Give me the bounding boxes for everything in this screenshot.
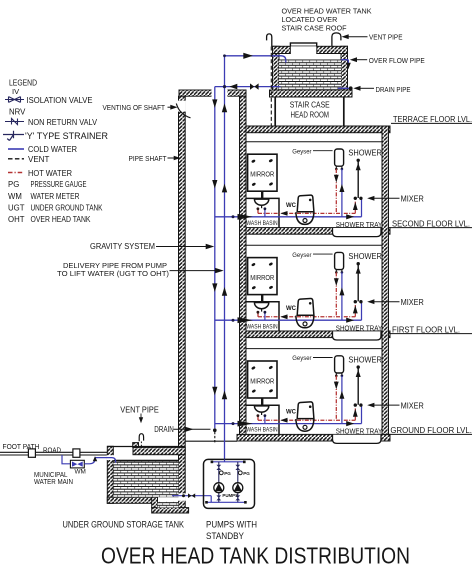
svg-text:PG: PG bbox=[243, 471, 250, 476]
svg-text:VENT PIPE: VENT PIPE bbox=[369, 32, 403, 41]
svg-text:NON RETURN VALV: NON RETURN VALV bbox=[28, 118, 98, 127]
svg-text:OVER FLOW PIPE: OVER FLOW PIPE bbox=[369, 56, 425, 65]
svg-text:IV: IV bbox=[12, 87, 20, 96]
svg-text:OVER HEAD TANK: OVER HEAD TANK bbox=[31, 215, 92, 224]
svg-text:UGT: UGT bbox=[8, 204, 25, 213]
svg-text:MIRROR: MIRROR bbox=[250, 170, 274, 179]
svg-text:TO LIFT WATER (UGT TO OHT): TO LIFT WATER (UGT TO OHT) bbox=[57, 269, 169, 278]
svg-text:WASH BASIN: WASH BASIN bbox=[246, 221, 277, 227]
svg-text:MIXER: MIXER bbox=[401, 195, 424, 204]
svg-text:OVER HEAD TANK DISTRIBUTION: OVER HEAD TANK DISTRIBUTION bbox=[101, 542, 410, 568]
svg-text:NRV: NRV bbox=[9, 107, 26, 116]
svg-text:ROAD: ROAD bbox=[43, 446, 61, 455]
svg-text:LEGEND: LEGEND bbox=[9, 78, 37, 87]
svg-text:PRESSURE GAUGE: PRESSURE GAUGE bbox=[31, 180, 87, 189]
svg-text:WM: WM bbox=[75, 468, 86, 475]
svg-text:COLD WATER: COLD WATER bbox=[28, 145, 77, 154]
svg-text:HEAD ROOM: HEAD ROOM bbox=[291, 110, 330, 120]
svg-text:DRAIN: DRAIN bbox=[154, 425, 174, 434]
svg-text:UNDER GROUND STORAGE TANK: UNDER GROUND STORAGE TANK bbox=[63, 518, 185, 529]
svg-text:WC: WC bbox=[286, 203, 297, 209]
svg-text:STAIR CASE ROOF: STAIR CASE ROOF bbox=[282, 24, 348, 33]
svg-text:STAIR CASE: STAIR CASE bbox=[290, 100, 330, 110]
svg-text:SHOWER: SHOWER bbox=[348, 148, 382, 158]
svg-text:STANDBY: STANDBY bbox=[206, 531, 244, 541]
svg-text:PG: PG bbox=[224, 471, 231, 476]
svg-text:OHT: OHT bbox=[8, 215, 25, 224]
svg-text:PIPE SHAFT: PIPE SHAFT bbox=[129, 154, 167, 163]
svg-text:WM: WM bbox=[8, 192, 22, 201]
svg-text:Geyser: Geyser bbox=[292, 148, 312, 155]
svg-text:DRAIN PIPE: DRAIN PIPE bbox=[376, 85, 411, 94]
svg-text:PUMPS: PUMPS bbox=[222, 493, 238, 498]
svg-text:WATER MAIN: WATER MAIN bbox=[34, 477, 73, 486]
svg-text:VENTING OF SHAFT: VENTING OF SHAFT bbox=[103, 103, 166, 112]
svg-text:ISOLATION VALVE: ISOLATION VALVE bbox=[27, 96, 93, 105]
svg-text:UNDER GROUND TANK: UNDER GROUND TANK bbox=[31, 204, 104, 213]
svg-text:PUMPS WITH: PUMPS WITH bbox=[206, 519, 257, 529]
svg-text:'Y' TYPE STRAINER: 'Y' TYPE STRAINER bbox=[25, 131, 108, 141]
svg-text:VENT: VENT bbox=[28, 155, 49, 164]
svg-text:HOT WATER: HOT WATER bbox=[28, 169, 72, 178]
svg-text:SHOWER TRAY: SHOWER TRAY bbox=[336, 220, 382, 229]
svg-text:WATER METER: WATER METER bbox=[31, 192, 80, 201]
svg-text:GROUND FLOOR LVL.: GROUND FLOOR LVL. bbox=[390, 425, 472, 435]
svg-text:VENT PIPE: VENT PIPE bbox=[120, 406, 159, 415]
svg-text:TERRACE FLOOR LVL.: TERRACE FLOOR LVL. bbox=[393, 114, 472, 124]
svg-text:PG: PG bbox=[8, 180, 19, 189]
svg-text:GRAVITY SYSTEM: GRAVITY SYSTEM bbox=[90, 242, 155, 251]
